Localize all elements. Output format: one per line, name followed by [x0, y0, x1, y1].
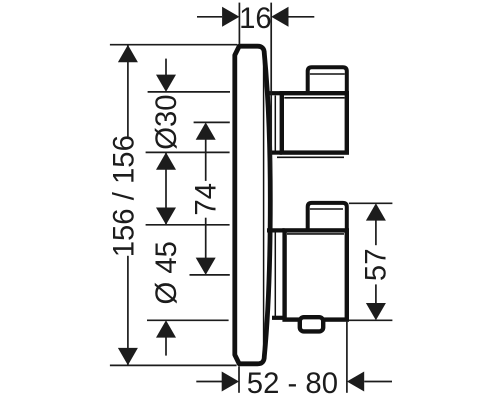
- top handle grip parting line: [284, 97, 344, 99]
- svg-text:Ø30: Ø30: [150, 94, 183, 149]
- dim 52-80: right arrow: [347, 372, 364, 392]
- dim 156/156: bottom extension line: [110, 364, 237, 366]
- dim 16: left tail: [197, 16, 222, 18]
- svg-text:156 / 156: 156 / 156: [107, 135, 140, 257]
- bottom handle grip: [285, 230, 347, 319]
- dim 16: left arrow: [222, 7, 239, 27]
- top handle neck top line: [267, 91, 282, 95]
- dim Ø30: top extension tick: [148, 91, 230, 93]
- dim 57: top arrow: [366, 203, 386, 220]
- top handle cap: [308, 67, 347, 93]
- dim 57: top extension tick: [349, 202, 393, 204]
- dim Ø30: bottom extension tick: [146, 151, 230, 153]
- dim 57: bottom arrow: [366, 303, 386, 320]
- dim 74: top extension tick: [194, 121, 230, 123]
- bottom handle cap: [308, 203, 347, 231]
- dim 16: right extension line: [270, 3, 272, 170]
- bottom handle tab: [300, 317, 323, 331]
- top handle cap parting line: [310, 73, 345, 75]
- bottom handle neck contour: [274, 232, 276, 317]
- svg-text:Ø 45: Ø 45: [150, 241, 183, 305]
- dim 57: bottom extension tick: [349, 319, 393, 321]
- dim 52-80: right extension line: [346, 322, 348, 393]
- dim 16: right tail: [289, 16, 315, 18]
- dim 156/156: top arrow: [118, 45, 138, 62]
- dim 156/156: upper line segment: [127, 45, 129, 137]
- bottom handle grip parting line: [287, 233, 344, 235]
- dim Ø45: top extension tick: [146, 224, 230, 226]
- dim 74: bottom extension tick: [190, 274, 230, 276]
- top handle neck contour: [274, 96, 276, 151]
- dim Ø45: bottom extension tick: [147, 319, 229, 321]
- dim Ø45: top arrow: [156, 208, 176, 225]
- bottom handle cap parting line: [310, 208, 343, 210]
- top handle neck bottom line: [272, 151, 283, 155]
- dim 74: top arrow: [196, 122, 216, 139]
- dim 74: bottom arrow: [196, 258, 216, 275]
- plate dome crease line: [263, 56, 265, 353]
- dim 52-80: left extension line: [238, 366, 240, 393]
- dim 74: upper line segment: [205, 139, 207, 181]
- svg-text:52 - 80: 52 - 80: [247, 367, 338, 400]
- dim 57: lower line segment: [375, 284, 377, 303]
- dim Ø30: bottom arrow: [156, 152, 176, 169]
- shared line between Ø30 and Ø45 arrows: [165, 152, 167, 224]
- bottom handle neck top line: [267, 228, 285, 232]
- dim 156/156: lower line segment: [127, 256, 129, 365]
- dim Ø30: upper line: [165, 59, 167, 76]
- svg-text:57: 57: [360, 249, 393, 282]
- dim Ø30: top arrow: [156, 75, 176, 92]
- bottom handle neck bottom line: [272, 316, 285, 320]
- dim 156/156: top extension line: [110, 44, 237, 46]
- top handle lower parting line: [277, 156, 344, 158]
- dim 16: right arrow: [271, 7, 288, 27]
- dim Ø45: bottom tail: [165, 337, 167, 356]
- top handle grip: [282, 93, 347, 152]
- escutcheon plate (side view): [235, 46, 270, 364]
- dim Ø45: bottom arrow: [156, 320, 176, 337]
- dim 16: left extension line: [238, 3, 240, 45]
- dim 52-80: right tail: [364, 381, 392, 383]
- dim 156/156: bottom arrow: [118, 348, 138, 365]
- dim 52-80: left tail: [196, 381, 222, 383]
- dim 52-80: left arrow: [222, 372, 239, 392]
- dim 74: lower line segment: [205, 218, 207, 259]
- svg-text:16: 16: [239, 2, 272, 35]
- dim 57: upper line segment: [375, 220, 377, 245]
- svg-text:74: 74: [190, 183, 223, 216]
